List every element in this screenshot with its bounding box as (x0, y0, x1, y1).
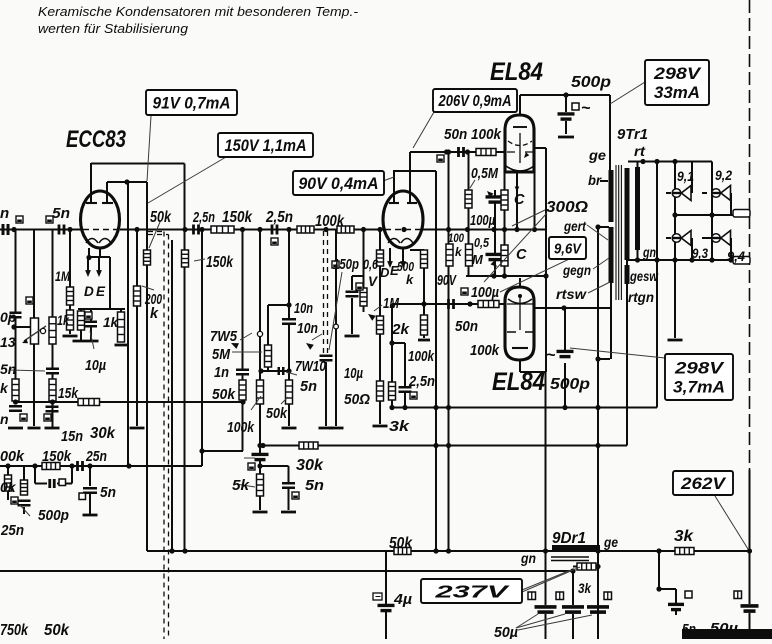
svg-text:13: 13 (0, 334, 16, 350)
svg-text:100µ: 100µ (471, 284, 499, 301)
svg-text:9Tr1: 9Tr1 (617, 126, 648, 143)
svg-text:0k: 0k (0, 479, 17, 495)
svg-text:10µ: 10µ (85, 358, 107, 374)
svg-text:750k: 750k (0, 622, 29, 639)
svg-text:1M: 1M (383, 295, 399, 312)
svg-text:gert: gert (563, 218, 587, 234)
svg-text:3,7mA: 3,7mA (673, 378, 725, 396)
svg-text:5n: 5n (100, 485, 116, 501)
svg-text:rt: rt (634, 143, 646, 159)
svg-text:gn: gn (520, 550, 536, 566)
svg-text:7W10: 7W10 (295, 358, 327, 375)
svg-text:00k: 00k (0, 449, 25, 465)
svg-text:0p: 0p (0, 309, 17, 325)
svg-text:5M: 5M (212, 346, 230, 363)
svg-text:150k: 150k (222, 209, 253, 226)
svg-text:M: M (472, 252, 484, 267)
svg-text:1k: 1k (57, 313, 70, 328)
svg-text:300Ω: 300Ω (546, 199, 588, 216)
svg-text:3k: 3k (674, 528, 695, 545)
svg-text:50Ω: 50Ω (344, 391, 370, 408)
svg-text:1M: 1M (55, 268, 70, 284)
svg-text:298V: 298V (674, 359, 726, 377)
svg-text:2,5n: 2,5n (192, 209, 215, 226)
svg-text:rtsw: rtsw (556, 286, 587, 302)
svg-text:90V: 90V (437, 273, 457, 289)
svg-text:50k: 50k (266, 405, 288, 422)
svg-text:EL84: EL84 (492, 368, 545, 396)
svg-text:150V 1,1mA: 150V 1,1mA (225, 137, 307, 155)
svg-text:2,5n: 2,5n (265, 209, 293, 226)
svg-text:15k: 15k (58, 385, 79, 402)
svg-text:0,5: 0,5 (474, 235, 490, 250)
svg-text:~: ~ (581, 100, 591, 117)
svg-text:k: k (150, 306, 159, 322)
svg-text:100: 100 (448, 231, 464, 245)
svg-text:50k: 50k (389, 535, 413, 552)
svg-text:gesw: gesw (629, 269, 659, 284)
svg-text:30k: 30k (90, 425, 116, 442)
svg-text:30k: 30k (296, 457, 324, 474)
svg-text:33mA: 33mA (654, 84, 700, 102)
svg-text:3k: 3k (389, 418, 410, 435)
svg-text:9,4: 9,4 (727, 248, 745, 264)
svg-text:n: n (0, 205, 9, 222)
svg-text:91V 0,7mA: 91V 0,7mA (153, 94, 231, 112)
svg-text:n: n (0, 411, 9, 427)
svg-text:5n: 5n (0, 361, 16, 377)
svg-text:50k: 50k (44, 622, 70, 639)
svg-text:k: k (0, 380, 9, 396)
svg-text:V: V (368, 274, 378, 289)
svg-text:150k: 150k (206, 254, 234, 271)
svg-text:150k: 150k (42, 448, 72, 465)
svg-text:2k: 2k (391, 321, 410, 338)
svg-text:10n: 10n (294, 301, 313, 317)
svg-text:100k: 100k (315, 213, 345, 230)
svg-text:9,6V: 9,6V (554, 240, 583, 257)
svg-text:k: k (406, 272, 414, 287)
svg-text:500p: 500p (550, 376, 590, 393)
svg-text:90V 0,4mA: 90V 0,4mA (299, 175, 379, 193)
svg-text:5n: 5n (682, 622, 696, 638)
svg-text:0,6: 0,6 (363, 257, 378, 272)
svg-text:100µ: 100µ (470, 213, 495, 229)
svg-text:100k: 100k (470, 342, 500, 359)
svg-text:1k: 1k (103, 315, 120, 330)
svg-text:150p: 150p (333, 257, 359, 273)
svg-text:gn: gn (642, 245, 656, 260)
svg-text:5n: 5n (52, 205, 70, 222)
svg-text:Keramische Kondensatoren mit b: Keramische Kondensatoren mit besonderen … (38, 4, 359, 19)
svg-text:50µ: 50µ (494, 624, 518, 639)
svg-text:500p: 500p (38, 507, 69, 524)
svg-text:50k: 50k (150, 209, 172, 226)
svg-text:298V: 298V (653, 65, 703, 83)
svg-text:ge: ge (603, 534, 618, 550)
svg-text:100k: 100k (227, 419, 255, 436)
svg-text:ge: ge (588, 147, 606, 163)
svg-text:9,3: 9,3 (692, 245, 708, 261)
svg-text:EL84: EL84 (490, 58, 543, 86)
svg-text:500p: 500p (571, 74, 611, 91)
svg-text:ECC83: ECC83 (66, 126, 126, 153)
svg-text:50µ: 50µ (710, 620, 738, 637)
svg-text:9,2: 9,2 (715, 167, 732, 183)
svg-text:rtgn: rtgn (628, 290, 654, 305)
svg-text:25n: 25n (0, 522, 24, 539)
svg-text:5k: 5k (232, 477, 250, 494)
svg-text:0,5M: 0,5M (471, 166, 499, 182)
svg-text:50k: 50k (212, 386, 236, 403)
svg-text:7W5: 7W5 (210, 328, 238, 345)
svg-text:gegn: gegn (562, 262, 591, 278)
svg-text:3k: 3k (578, 580, 592, 596)
svg-text:br: br (588, 172, 602, 188)
svg-text:9Dr1: 9Dr1 (552, 530, 586, 547)
svg-text:9,1: 9,1 (677, 168, 694, 184)
svg-text:1n: 1n (214, 364, 229, 381)
svg-text:C: C (514, 192, 525, 208)
svg-text:237V: 237V (434, 581, 510, 601)
svg-text:C: C (516, 247, 527, 263)
svg-text:E: E (96, 284, 106, 299)
svg-text:206V 0,9mA: 206V 0,9mA (438, 93, 512, 110)
svg-text:~: ~ (546, 347, 556, 364)
svg-text:10n: 10n (297, 321, 318, 337)
svg-text:10µ: 10µ (344, 366, 363, 382)
svg-text:D: D (380, 265, 390, 280)
svg-text:15n: 15n (61, 428, 83, 445)
svg-text:2,5n: 2,5n (408, 373, 435, 390)
svg-text:5n: 5n (305, 477, 324, 494)
svg-text:50n: 50n (455, 318, 478, 335)
svg-text:werten für Stabilisierung: werten für Stabilisierung (38, 21, 189, 36)
svg-text:D: D (84, 284, 94, 299)
svg-text:100k: 100k (408, 348, 435, 365)
svg-text:25n: 25n (85, 448, 107, 465)
svg-text:262V: 262V (680, 475, 727, 493)
svg-text:5n: 5n (300, 379, 317, 395)
svg-text:4µ: 4µ (393, 591, 412, 608)
svg-text:50n 100k: 50n 100k (444, 126, 502, 143)
